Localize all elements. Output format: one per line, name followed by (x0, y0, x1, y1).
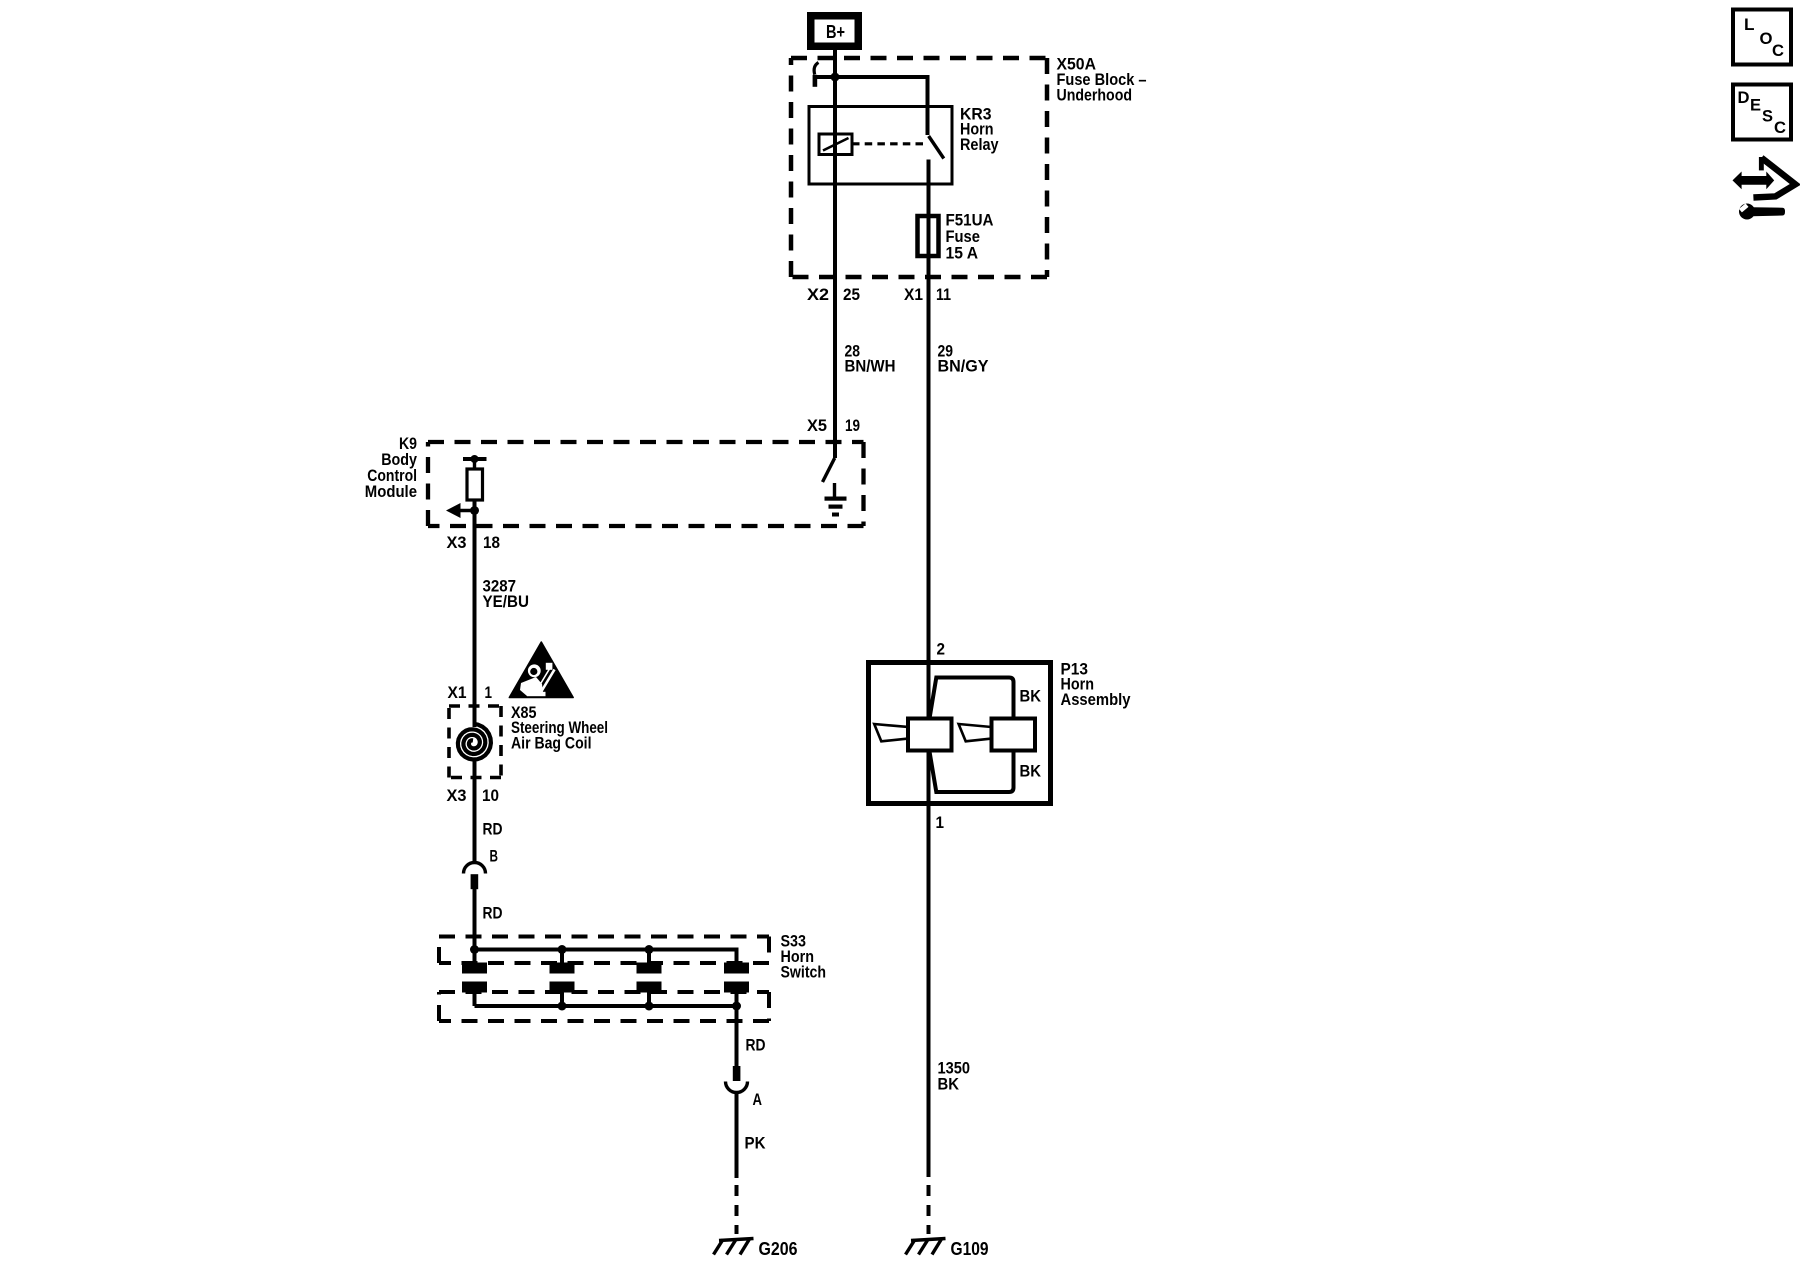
svg-text:RD: RD (483, 904, 503, 923)
svg-text:YE/BU: YE/BU (483, 592, 530, 611)
relay coil (819, 134, 852, 155)
svg-text:BK: BK (938, 1075, 960, 1094)
ground G206 (714, 1239, 754, 1255)
in-line connector A (726, 1066, 748, 1093)
dashed continuation wire (735, 1185, 739, 1234)
svg-text:G206: G206 (759, 1239, 798, 1259)
wire label 29 BN/GY (938, 342, 990, 376)
svg-text:10: 10 (482, 786, 499, 805)
svg-text:X3: X3 (447, 786, 467, 805)
horn switch top bus wire (475, 950, 737, 964)
svg-text:Switch: Switch (781, 963, 827, 982)
svg-text:X1: X1 (448, 683, 467, 702)
wire from connector B to horn switch (473, 889, 477, 950)
wire from relay switch through fuse to X1 pin 11 and horn assembly (927, 160, 931, 720)
svg-text:C: C (1772, 41, 1784, 60)
wire label 1350 BK (938, 1059, 971, 1094)
wire from B+ down through relay coil to X2 pin 25 (833, 50, 837, 458)
wire label 3287 YE/BU (483, 577, 530, 612)
air bag coil X85 dashed box (449, 706, 501, 778)
K9 internal driver stub (473, 459, 476, 469)
coil spiral X85 (458, 724, 491, 760)
svg-text:19: 19 (845, 416, 860, 435)
ground G109 (906, 1239, 946, 1255)
dashed continuation wire (927, 1185, 931, 1234)
horn switch bottom bus wire (475, 1004, 737, 1008)
junction nodes on top bus (470, 945, 479, 954)
navigation double arrow icon (1733, 172, 1775, 190)
junction node at B+ split (831, 73, 840, 82)
fuse block terminal clip (814, 63, 818, 75)
svg-text:E: E (1750, 96, 1761, 115)
svg-text:BK: BK (1020, 687, 1042, 706)
horn switch S33 lower dashed box (439, 992, 769, 1021)
SIR warning triangle (509, 642, 573, 698)
fuse block X50A dashed box (791, 58, 1047, 277)
label KR3 Horn Relay (960, 105, 999, 155)
svg-text:BN/WH: BN/WH (845, 357, 896, 376)
svg-text:BK: BK (1020, 762, 1042, 781)
K9 output wire to X3 pin 18 (473, 500, 477, 727)
svg-text:Module: Module (365, 482, 417, 501)
wire from horn assembly toward ground G109 (927, 751, 931, 1177)
horn switch S33 upper dashed box (439, 937, 769, 964)
svg-text:A: A (753, 1090, 763, 1109)
label K9 Body Control Module (365, 434, 418, 501)
svg-text:G109: G109 (951, 1239, 989, 1259)
svg-text:25: 25 (843, 285, 860, 304)
fuse F51UA (918, 216, 939, 256)
svg-text:B+: B+ (826, 22, 845, 42)
switch contact stems bottom (473, 992, 477, 1006)
navigation chevron outline arrow (1753, 158, 1795, 198)
pin labels X3 18 (447, 533, 501, 552)
body control module K9 dashed box (428, 442, 864, 526)
svg-text:X1: X1 (904, 285, 923, 304)
svg-text:Relay: Relay (960, 135, 999, 154)
navigation chevron stub (1759, 157, 1764, 170)
switch contact bars top row (462, 963, 487, 974)
switch contact stems top (473, 950, 477, 964)
right horn element (959, 719, 1035, 751)
svg-text:S: S (1762, 107, 1773, 126)
svg-text:1: 1 (936, 813, 945, 832)
svg-text:C: C (1774, 118, 1786, 137)
switch contact bars bottom row (462, 982, 487, 993)
power symbol B+ (811, 16, 859, 47)
svg-text:PK: PK (745, 1134, 767, 1153)
label P13 Horn Assembly (1061, 660, 1131, 710)
wire from X85 to connector B (473, 760, 477, 863)
svg-text:X2: X2 (807, 285, 829, 304)
wire from connector A toward ground G206 (735, 1093, 739, 1179)
svg-text:X3: X3 (447, 533, 467, 552)
horn assembly P13 box (869, 663, 1051, 804)
label X50A Fuse Block Underhood (1057, 55, 1147, 105)
svg-text:RD: RD (483, 820, 503, 839)
svg-text:BN/GY: BN/GY (938, 357, 990, 376)
svg-text:O: O (1760, 29, 1773, 48)
DESC reference box (1733, 85, 1791, 140)
wrench icon (1739, 203, 1785, 219)
pin labels X1 1 (448, 683, 493, 702)
left horn element (874, 719, 951, 751)
junction nodes on bottom bus (558, 1002, 567, 1011)
pin labels X3 10 (447, 786, 500, 805)
svg-text:11: 11 (936, 285, 951, 304)
wire feed to relay switch (816, 77, 928, 135)
K9 internal driver resistor (467, 469, 483, 500)
LOC reference box (1733, 10, 1791, 65)
svg-text:1: 1 (485, 683, 493, 702)
K9 internal driver bar (463, 457, 487, 461)
relay switch arm (929, 136, 944, 159)
svg-text:Air Bag Coil: Air Bag Coil (511, 734, 592, 753)
svg-text:15 A: 15 A (946, 244, 979, 263)
svg-text:L: L (1744, 15, 1755, 34)
in-line connector B (464, 863, 486, 890)
wire label 28 BN/WH (845, 342, 896, 376)
svg-text:18: 18 (483, 533, 500, 552)
pin labels X2 25 X1 11 (807, 285, 951, 304)
svg-text:B: B (490, 847, 499, 866)
svg-text:Underhood: Underhood (1057, 86, 1133, 105)
relay actuation dashed link (852, 142, 924, 145)
svg-text:X5: X5 (807, 416, 827, 435)
K9 signal arrow (446, 503, 479, 518)
K9 internal switch arm to ground (823, 458, 835, 482)
label X85 Steering Wheel Air Bag Coil (511, 703, 608, 753)
svg-text:D: D (1738, 88, 1750, 107)
relay KR3 box (809, 107, 952, 185)
pin labels X5 19 (807, 416, 860, 435)
label F51UA Fuse 15 A (946, 211, 994, 263)
svg-text:Assembly: Assembly (1061, 690, 1131, 709)
svg-text:RD: RD (746, 1036, 766, 1055)
label S33 Horn Switch (781, 932, 827, 982)
svg-text:2: 2 (937, 640, 946, 659)
horn inner loop wire (930, 678, 1014, 793)
K9 internal ground (825, 483, 847, 517)
